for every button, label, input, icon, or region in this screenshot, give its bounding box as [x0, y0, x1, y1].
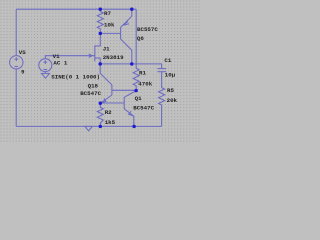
node dot rail/R7 — [99, 8, 102, 11]
node dot R7/J1 drain/Q6 base — [99, 32, 102, 35]
svg-text:20k: 20k — [167, 97, 178, 104]
voltage source VS — [10, 56, 23, 69]
resistor R7 — [97, 9, 103, 33]
svg-text:VS: VS — [19, 49, 26, 56]
svg-text:Q1: Q1 — [135, 95, 142, 102]
svg-text:Q6: Q6 — [137, 35, 144, 42]
node dot Q18 emitter / R2 / Q1 base — [99, 102, 102, 105]
svg-text:SINE(0 1 1000): SINE(0 1 1000) — [51, 73, 100, 80]
node dot Q6 collector / node A — [130, 62, 133, 65]
svg-text:470k: 470k — [138, 81, 152, 88]
wire left branch lower (VS bottom to ground rail) — [15, 69, 17, 126]
voltage source V1 — [39, 59, 52, 74]
wire Q6 base — [100, 32, 120, 34]
svg-text:C1: C1 — [164, 57, 171, 64]
wire J1 source to node A — [95, 58, 100, 64]
resistor R5 — [159, 88, 165, 127]
JFET J1 2N3819 — [89, 45, 101, 61]
wire Q18 emitter / R2 top to Q1 base — [100, 102, 124, 104]
svg-text:R7: R7 — [104, 10, 111, 17]
svg-text:9: 9 — [21, 69, 25, 76]
node dot R1 bottom / Q18 base / Q1 collector — [134, 89, 137, 92]
resistor R2 — [97, 103, 103, 126]
svg-text:1k5: 1k5 — [105, 119, 116, 126]
node dot R2 bottom / rail — [99, 125, 102, 128]
wire V1 to J1 gate — [45, 56, 95, 59]
capacitor C1 — [157, 69, 166, 88]
wire bottom ground rail — [16, 125, 161, 127]
resistor R1 — [133, 68, 139, 90]
svg-text:10µ: 10µ — [165, 72, 176, 79]
ground on bottom rail — [85, 126, 92, 130]
svg-text:J1: J1 — [103, 45, 110, 52]
wire node A horizontal (J1 source / Q6 collector / C1) — [100, 64, 161, 68]
wire R1 column from rail corner down — [135, 9, 137, 68]
svg-text:R5: R5 — [167, 87, 174, 94]
svg-text:AC 1: AC 1 — [53, 60, 67, 67]
svg-text:10k: 10k — [104, 22, 115, 29]
wire top rail +9V — [16, 8, 136, 10]
svg-text:R1: R1 — [139, 69, 146, 76]
svg-text:BC547C: BC547C — [133, 104, 154, 111]
transistor Q6 BC557C PNP — [121, 9, 132, 64]
transistor Q1 BC547C NPN — [124, 91, 136, 127]
ground under V1 — [42, 73, 50, 78]
wire node A down to Q18 collector — [100, 64, 112, 85]
wire left branch upper (rail to VS top) — [15, 9, 17, 55]
node dot rail/Q6 emitter — [130, 8, 133, 11]
node dot Q1 emitter / rail — [132, 125, 135, 128]
wire Q18 base to R1 bottom node — [112, 89, 136, 91]
svg-text:BC557C: BC557C — [137, 26, 158, 33]
svg-text:BC547C: BC547C — [80, 90, 101, 97]
node dot J1 source / node A — [99, 62, 102, 65]
svg-text:R2: R2 — [105, 109, 112, 116]
svg-text:Q18: Q18 — [88, 83, 99, 90]
svg-text:2N3819: 2N3819 — [103, 54, 124, 61]
transistor Q18 BC547C NPN mirrored — [100, 85, 112, 103]
wire J1 drain to R7 bottom node — [95, 33, 101, 46]
